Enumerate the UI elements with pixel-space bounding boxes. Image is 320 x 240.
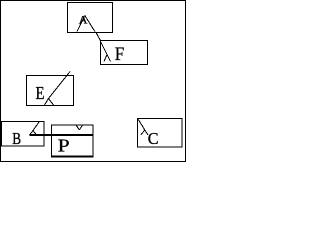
node P box (outer with banner) [52,125,94,156]
caret in E [45,99,49,106]
pointer diagonal in B [33,122,39,131]
svg-text:F: F [115,43,125,64]
triangle pointer in A [77,15,85,31]
svg-text:P: P [58,136,70,156]
node C box [138,119,183,148]
pointer diagonal in C [138,119,145,130]
edge B to P and divider [30,134,94,136]
pointer diagonal in F [101,42,108,55]
svg-text:C: C [148,129,159,148]
node A box [68,3,113,33]
caret above P [76,125,79,130]
svg-text:B: B [12,130,21,149]
pointer diagonal in E [49,72,71,99]
caret in F [104,55,107,62]
node F box [101,41,148,65]
svg-text:E: E [36,83,45,104]
P box bottom border thick [51,156,94,158]
caret in B [30,131,34,136]
node B box [2,122,45,147]
node E box [27,76,74,106]
caret in C [141,130,145,135]
edge A to F [96,33,101,42]
